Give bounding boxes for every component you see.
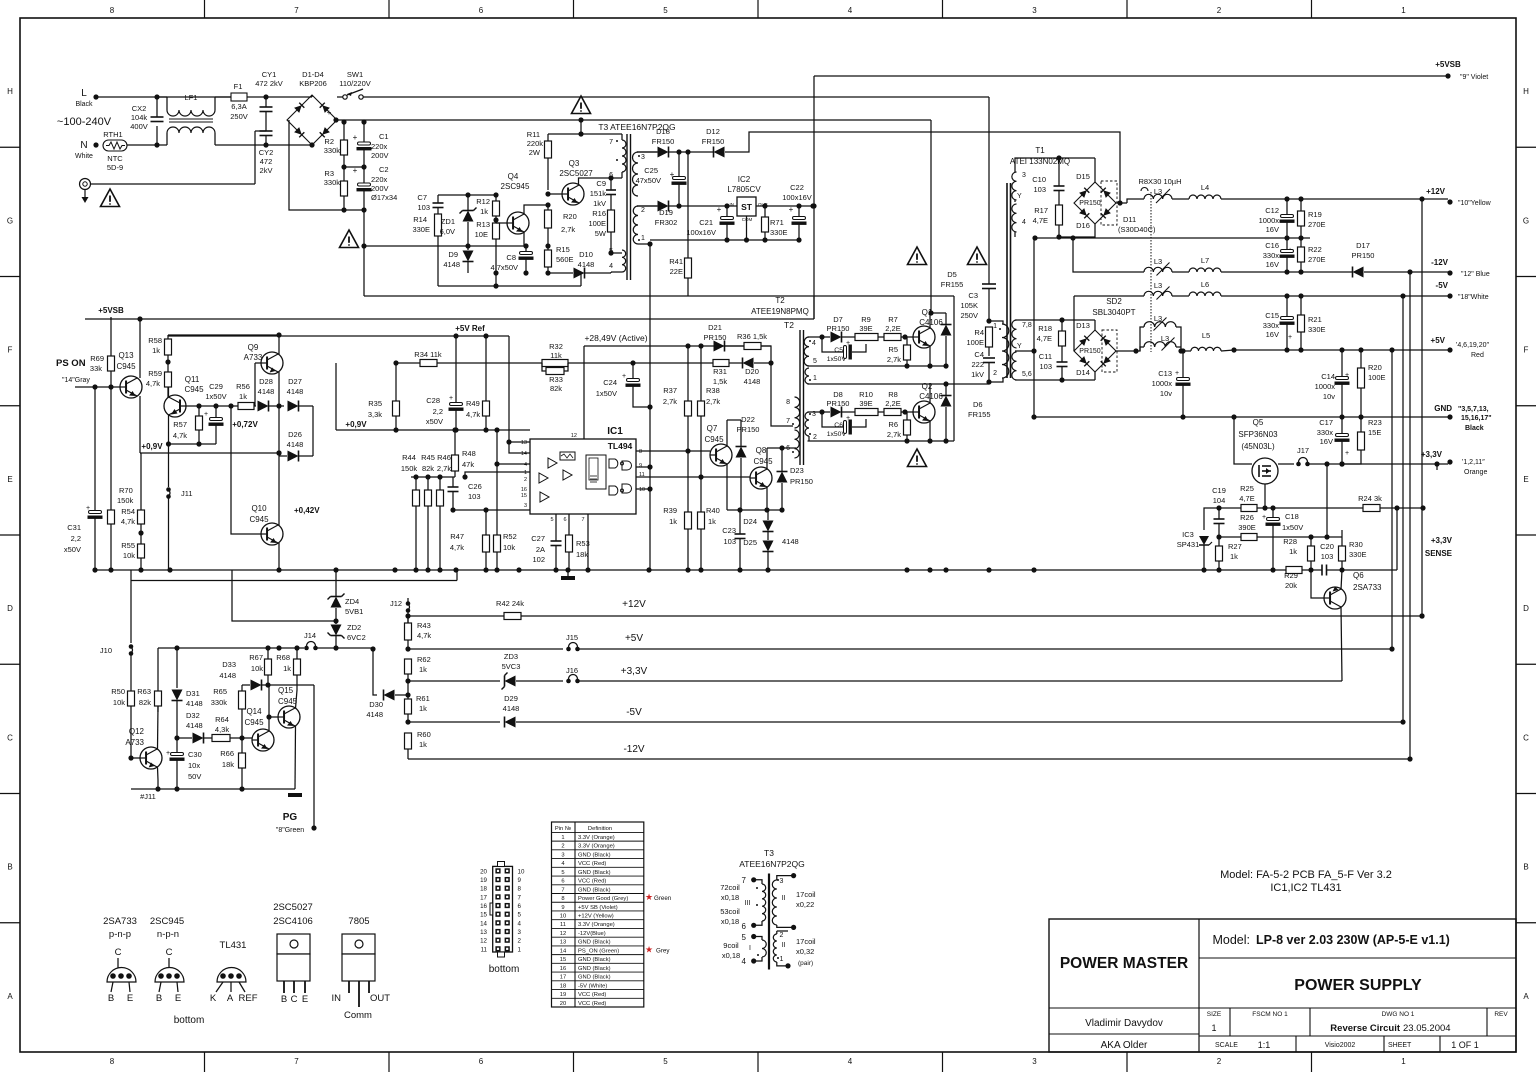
svg-text:+3,3V: +3,3V — [621, 666, 648, 677]
wire D27 to D26 — [312, 406, 314, 456]
svg-text:GND (Black): GND (Black) — [578, 887, 611, 893]
wire 3.3V fb rail — [1135, 569, 1286, 571]
wire +3.3V sense loop — [1436, 464, 1438, 470]
svg-text:8: 8 — [110, 6, 115, 15]
svg-text:Red: Red — [1471, 352, 1484, 359]
svg-text:6,0V: 6,0V — [440, 227, 455, 236]
svg-text:Black: Black — [1465, 425, 1484, 432]
svg-text:9: 9 — [561, 905, 564, 911]
svg-text:100x16V: 100x16V — [686, 228, 716, 237]
wire mains bus y97 — [420, 96, 989, 98]
svg-text:FSCM NO 1: FSCM NO 1 — [1252, 1011, 1288, 1018]
svg-text:H: H — [1523, 87, 1529, 96]
svg-text:C4106: C4106 — [919, 392, 943, 401]
svg-text:SBL3040PT: SBL3040PT — [1092, 308, 1135, 317]
svg-text:4148: 4148 — [186, 699, 203, 708]
svg-text:+5V: +5V — [1431, 336, 1446, 345]
svg-text:4: 4 — [812, 340, 816, 347]
svg-text:POWER MASTER: POWER MASTER — [1060, 955, 1188, 972]
svg-text:10E: 10E — [475, 230, 488, 239]
svg-text:R15: R15 — [556, 245, 570, 254]
svg-text:C27: C27 — [531, 534, 545, 543]
svg-text:4,7E: 4,7E — [1037, 334, 1052, 343]
svg-text:4,7E: 4,7E — [1033, 216, 1048, 225]
wire Q6 base — [1311, 570, 1324, 598]
svg-text:E: E — [302, 994, 308, 1005]
svg-text:12: 12 — [560, 931, 566, 937]
svg-text:16: 16 — [480, 903, 487, 910]
svg-text:Black: Black — [75, 101, 93, 108]
wire T2 center row — [808, 383, 990, 385]
svg-text:+: + — [353, 166, 358, 175]
svg-text:17: 17 — [480, 894, 487, 901]
wire hk bottom rail — [131, 788, 295, 790]
svg-text:SD2: SD2 — [1106, 297, 1122, 306]
svg-text:REV: REV — [1494, 1011, 1508, 1018]
wire 12V gnd row — [1035, 237, 1310, 239]
svg-text:47k: 47k — [462, 460, 474, 469]
svg-text:1000x: 1000x — [1152, 379, 1173, 388]
svg-text:IC2: IC2 — [738, 175, 751, 184]
svg-text:C23: C23 — [722, 526, 736, 535]
svg-text:15E: 15E — [1368, 428, 1381, 437]
wire Q4 emitter — [523, 232, 525, 246]
svg-text:R10: R10 — [859, 390, 873, 399]
svg-text:222: 222 — [971, 360, 984, 369]
svg-text:11: 11 — [481, 946, 488, 953]
wire J12 top — [407, 598, 409, 604]
svg-text:G: G — [7, 216, 13, 225]
svg-text:14: 14 — [521, 451, 527, 457]
svg-text:2,7k: 2,7k — [561, 225, 575, 234]
svg-text:1: 1 — [780, 956, 784, 963]
svg-text:R71: R71 — [770, 218, 784, 227]
svg-text:C8: C8 — [506, 253, 516, 262]
svg-text:C12: C12 — [1265, 206, 1279, 215]
svg-text:R20: R20 — [1368, 363, 1382, 372]
svg-text:2,7k: 2,7k — [706, 397, 720, 406]
svg-text:D18: D18 — [656, 127, 670, 136]
svg-text:23.05.2004: 23.05.2004 — [1403, 1023, 1451, 1034]
svg-text:C14: C14 — [1321, 372, 1335, 381]
svg-text:R59: R59 — [148, 369, 162, 378]
svg-text:R66: R66 — [220, 749, 234, 758]
svg-text:R30: R30 — [1349, 540, 1363, 549]
svg-text:1x50V: 1x50V — [596, 389, 617, 398]
svg-text:D8: D8 — [833, 390, 843, 399]
svg-text:II: II — [782, 942, 786, 949]
svg-text:5: 5 — [742, 933, 747, 942]
svg-text:4148: 4148 — [744, 377, 761, 386]
wire y648 to D30 — [316, 647, 373, 649]
svg-text:GND (Black): GND (Black) — [578, 940, 611, 946]
svg-text:10k: 10k — [251, 664, 263, 673]
svg-text:C4: C4 — [974, 350, 984, 359]
svg-text:Q10: Q10 — [251, 504, 267, 513]
svg-text:4148: 4148 — [258, 387, 275, 396]
svg-text:5VC3: 5VC3 — [502, 662, 521, 671]
svg-text:C17: C17 — [1319, 418, 1333, 427]
svg-text:White: White — [75, 153, 93, 160]
svg-text:C15: C15 — [1265, 311, 1279, 320]
wire standby top node — [438, 194, 496, 196]
svg-text:+5V: +5V — [625, 633, 643, 644]
svg-text:4,7x50V: 4,7x50V — [490, 263, 518, 272]
svg-text:R11: R11 — [527, 130, 540, 139]
wire GND to Q5 loop — [1234, 417, 1252, 464]
svg-text:105K: 105K — [960, 301, 978, 310]
svg-text:2SC4106: 2SC4106 — [273, 916, 313, 927]
svg-text:R56: R56 — [236, 382, 250, 391]
svg-text:"12" Blue: "12" Blue — [1461, 271, 1490, 278]
svg-text:D27: D27 — [288, 377, 302, 386]
svg-text:R14: R14 — [413, 215, 427, 224]
svg-text:K: K — [210, 993, 217, 1004]
svg-text:PR150: PR150 — [704, 333, 727, 342]
svg-text:-12V(Blue): -12V(Blue) — [578, 931, 606, 937]
svg-text:C30: C30 — [188, 750, 202, 759]
svg-text:Q14: Q14 — [246, 707, 262, 716]
svg-text:3: 3 — [561, 852, 564, 858]
svg-text:104k: 104k — [131, 113, 148, 122]
svg-text:FR155: FR155 — [968, 410, 991, 419]
svg-text:103: 103 — [1039, 362, 1052, 371]
pin definition table — [552, 822, 644, 1007]
svg-text:400V: 400V — [130, 122, 148, 131]
svg-text:+12V (Yellow): +12V (Yellow) — [578, 914, 614, 920]
svg-text:(S30D40C): (S30D40C) — [1118, 225, 1156, 234]
svg-text:R27: R27 — [1228, 542, 1242, 551]
ground Q15 — [288, 793, 302, 797]
svg-text:~100-240V: ~100-240V — [57, 116, 112, 128]
wire pin12 riser — [583, 346, 585, 439]
svg-text:4,7E: 4,7E — [1239, 494, 1254, 503]
svg-text:6: 6 — [518, 903, 522, 910]
wire pin1 line — [465, 472, 530, 477]
svg-text:1: 1 — [1211, 1023, 1216, 1033]
svg-text:150k: 150k — [117, 496, 134, 505]
svg-text:B: B — [281, 994, 287, 1005]
svg-text:D22: D22 — [741, 415, 755, 424]
svg-text:'1,2,11″: '1,2,11″ — [1462, 459, 1485, 466]
svg-text:B: B — [1523, 863, 1528, 872]
svg-text:L7805CV: L7805CV — [727, 185, 761, 194]
wire B- to standby — [364, 245, 438, 247]
svg-text:R48: R48 — [462, 449, 476, 458]
svg-text:3: 3 — [1032, 6, 1037, 15]
svg-text:T3: T3 — [764, 848, 774, 858]
svg-text:R5: R5 — [888, 345, 898, 354]
svg-text:2,2: 2,2 — [433, 407, 443, 416]
svg-text:7: 7 — [294, 1057, 299, 1066]
svg-text:R44: R44 — [402, 453, 416, 462]
wire secondary gnd rail y570 — [95, 569, 1135, 571]
svg-text:Green: Green — [654, 895, 672, 902]
wire +5VSB vertical — [813, 76, 815, 319]
svg-text:R43: R43 — [417, 621, 431, 630]
svg-text:D7: D7 — [833, 315, 843, 324]
svg-text:2,7k: 2,7k — [663, 397, 677, 406]
svg-text:R2: R2 — [324, 137, 334, 146]
svg-text:C11: C11 — [1039, 352, 1052, 361]
svg-text:C945: C945 — [116, 362, 136, 371]
svg-text:R7: R7 — [888, 315, 898, 324]
wire Q13 emitter — [139, 396, 141, 453]
wire T1 lower sec wires — [1015, 319, 1095, 321]
svg-text:E: E — [1523, 475, 1528, 484]
svg-text:"14"Gray: "14"Gray — [62, 377, 90, 384]
svg-text:R42 24k: R42 24k — [496, 599, 524, 608]
svg-text:330E: 330E — [1308, 325, 1326, 334]
warning triangle B- — [340, 230, 359, 248]
svg-text:1: 1 — [641, 235, 645, 242]
svg-text:270E: 270E — [1308, 220, 1326, 229]
svg-text:330k: 330k — [324, 178, 341, 187]
svg-text:13: 13 — [521, 440, 527, 446]
wire B- from bridge — [289, 120, 364, 210]
svg-text:+5V SB (Violet): +5V SB (Violet) — [578, 905, 618, 911]
svg-text:x0,18: x0,18 — [721, 917, 739, 926]
wire +3.3V down to R26 node — [1326, 464, 1328, 537]
wire bridge out +12V — [1116, 202, 1127, 204]
svg-text:7: 7 — [294, 6, 299, 15]
svg-text:x0,22: x0,22 — [796, 900, 814, 909]
svg-text:1k: 1k — [1289, 547, 1297, 556]
svg-text:Orange: Orange — [1464, 469, 1487, 476]
wire primary return y296 — [364, 295, 954, 297]
svg-text:L5: L5 — [1202, 331, 1210, 340]
svg-text:Power Good (Grey): Power Good (Grey) — [578, 896, 628, 902]
svg-text:6VC2: 6VC2 — [347, 633, 366, 642]
svg-text:L3: L3 — [1154, 281, 1162, 290]
svg-text:4,7k: 4,7k — [417, 631, 431, 640]
svg-text:5: 5 — [663, 1057, 668, 1066]
svg-text:D28: D28 — [259, 377, 273, 386]
svg-text:F: F — [1524, 346, 1529, 355]
svg-text:R39: R39 — [663, 506, 677, 515]
warning triangle near earth — [101, 189, 120, 207]
svg-text:4,7k: 4,7k — [146, 379, 160, 388]
svg-text:PR150: PR150 — [1352, 251, 1375, 260]
wire -12V rail — [1221, 271, 1352, 273]
svg-text:10: 10 — [560, 914, 566, 920]
diode D22 body — [736, 447, 747, 458]
svg-text:L4: L4 — [1201, 183, 1209, 192]
svg-text:'4,6,19,20″: '4,6,19,20″ — [1456, 342, 1490, 349]
svg-text:x50V: x50V — [426, 417, 443, 426]
wire Q11 node row — [186, 405, 246, 407]
wire Q5 source right — [1278, 463, 1294, 465]
svg-text:J14: J14 — [304, 631, 316, 640]
svg-text:R46: R46 — [437, 453, 451, 462]
svg-text:D: D — [1523, 604, 1529, 613]
svg-text:CY1: CY1 — [262, 70, 277, 79]
svg-text:+0,9V: +0,9V — [141, 442, 163, 451]
svg-text:1: 1 — [993, 323, 997, 330]
wire pin9-10 vertical — [636, 466, 650, 468]
svg-text:3: 3 — [518, 929, 522, 936]
svg-text:"18"White: "18"White — [1458, 294, 1489, 301]
svg-text:D29: D29 — [504, 694, 518, 703]
svg-text:B: B — [108, 993, 114, 1004]
wire R30 top — [1341, 530, 1343, 537]
wire -5V rail — [1221, 295, 1448, 297]
svg-text:FR302: FR302 — [655, 218, 678, 227]
wire D32 row — [193, 733, 204, 744]
svg-text:17coil: 17coil — [796, 937, 816, 946]
wire Q1 collector — [930, 313, 946, 328]
svg-text:Q7: Q7 — [707, 424, 718, 433]
wire D12 up — [725, 132, 1120, 203]
core dashed line — [1150, 192, 1152, 352]
svg-text:C28: C28 — [426, 396, 440, 405]
svg-text:Q9: Q9 — [248, 343, 259, 352]
svg-text:3: 3 — [524, 503, 527, 509]
svg-text:REF: REF — [239, 993, 258, 1004]
svg-text:39E: 39E — [859, 324, 872, 333]
wire Q13 collector — [139, 319, 141, 378]
svg-text:II: II — [782, 895, 786, 902]
svg-text:G: G — [1523, 216, 1529, 225]
svg-text:"10"Yellow: "10"Yellow — [1458, 200, 1492, 207]
svg-text:16V: 16V — [1266, 225, 1279, 234]
svg-text:C: C — [166, 947, 173, 958]
warning triangle above T3 — [572, 96, 591, 114]
svg-text:Vladimir Davydov: Vladimir Davydov — [1085, 1018, 1163, 1029]
svg-text:6: 6 — [742, 922, 747, 931]
svg-text:Reverse Circuit: Reverse Circuit — [1330, 1023, 1401, 1034]
svg-text:PS ON: PS ON — [56, 358, 86, 369]
svg-text:2: 2 — [780, 932, 784, 939]
svg-text:4148: 4148 — [186, 721, 203, 730]
svg-text:2,7k: 2,7k — [887, 430, 901, 439]
svg-text:PG: PG — [283, 812, 298, 823]
svg-text:2SC945: 2SC945 — [150, 916, 184, 927]
svg-text:+5VSB: +5VSB — [98, 306, 124, 315]
wire +5VSB rail y319 — [85, 318, 814, 320]
wire J17 to +3.3V — [1308, 463, 1448, 465]
svg-text:SCALE: SCALE — [1215, 1042, 1238, 1049]
wire N — [127, 144, 157, 146]
svg-text:C31: C31 — [67, 523, 81, 532]
svg-text:R25: R25 — [1240, 484, 1254, 493]
svg-text:7805: 7805 — [348, 916, 369, 927]
svg-text:R8X30 10µH: R8X30 10µH — [1138, 177, 1181, 186]
svg-text:7: 7 — [518, 894, 522, 901]
svg-text:20: 20 — [480, 868, 487, 875]
svg-text:R35: R35 — [368, 399, 382, 408]
svg-text:D20: D20 — [745, 367, 759, 376]
svg-text:NTC: NTC — [107, 154, 123, 163]
svg-text:3.3V (Orange): 3.3V (Orange) — [578, 922, 615, 928]
svg-text:+0,9V: +0,9V — [345, 420, 367, 429]
svg-text:8: 8 — [639, 449, 642, 455]
svg-text:2: 2 — [641, 207, 645, 214]
wire R57 C29 bottom row — [169, 443, 217, 445]
svg-text:1k: 1k — [669, 517, 677, 526]
svg-text:-12V: -12V — [623, 744, 644, 755]
svg-text:D9: D9 — [448, 250, 458, 259]
svg-text:4,7k: 4,7k — [121, 517, 135, 526]
wire T1 center tap gnd — [1033, 238, 1035, 417]
svg-text:+3,3V: +3,3V — [1431, 536, 1453, 545]
svg-text:220x: 220x — [371, 175, 388, 184]
svg-text:R58: R58 — [148, 336, 162, 345]
svg-text:100x16V: 100x16V — [782, 193, 812, 202]
wire Q15 base — [269, 716, 278, 718]
wire pin13 stub — [509, 441, 530, 443]
svg-text:16: 16 — [560, 966, 566, 972]
svg-text:330x: 330x — [1263, 251, 1280, 260]
wire Q11 base right — [180, 405, 186, 407]
svg-text:D16: D16 — [1076, 221, 1090, 230]
terminal PS_ON — [92, 384, 97, 389]
svg-text:4: 4 — [848, 6, 853, 15]
wire Q3 collector — [579, 178, 612, 186]
svg-text:RTH1: RTH1 — [103, 130, 122, 139]
svg-text:+: + — [1262, 514, 1266, 521]
svg-text:SP431: SP431 — [1177, 540, 1200, 549]
svg-text:VCC (Red): VCC (Red) — [578, 992, 606, 998]
svg-text:1k: 1k — [152, 346, 160, 355]
svg-text:C945: C945 — [184, 385, 204, 394]
svg-text:D13: D13 — [1076, 321, 1090, 330]
wire D20 down to T2 pin7 — [771, 363, 793, 426]
svg-text:R19: R19 — [1308, 210, 1322, 219]
svg-text:D5: D5 — [947, 270, 957, 279]
svg-text:DWG NO 1: DWG NO 1 — [1382, 1011, 1415, 1018]
svg-text:4148: 4148 — [366, 710, 383, 719]
svg-text:D17: D17 — [1356, 241, 1370, 250]
wire R24 row — [1265, 507, 1423, 509]
svg-text:R67: R67 — [249, 653, 263, 662]
svg-text:L7: L7 — [1201, 256, 1209, 265]
svg-text:1k: 1k — [239, 392, 247, 401]
wire F1 to bridge — [247, 96, 312, 98]
svg-text:4148: 4148 — [503, 704, 520, 713]
svg-text:2SC5027: 2SC5027 — [559, 169, 593, 178]
wire +5V sense loop — [1391, 350, 1393, 649]
svg-text:330k: 330k — [211, 698, 228, 707]
svg-text:1x50V: 1x50V — [1282, 523, 1303, 532]
svg-text:C1: C1 — [379, 132, 389, 141]
svg-text:R55: R55 — [121, 541, 135, 550]
svg-text:9: 9 — [518, 877, 522, 884]
svg-text:LF1: LF1 — [185, 93, 198, 102]
svg-text:C2: C2 — [379, 165, 389, 174]
wire rail570 drop x232 — [232, 570, 336, 621]
svg-text:R40: R40 — [706, 506, 720, 515]
svg-text:8: 8 — [561, 896, 564, 902]
wire Q10 base — [231, 406, 261, 534]
svg-text:20: 20 — [560, 1001, 566, 1007]
wire L — [96, 96, 231, 98]
svg-text:1: 1 — [561, 835, 564, 841]
svg-text:2,7k: 2,7k — [437, 464, 451, 473]
svg-text:18: 18 — [560, 983, 566, 989]
svg-text:L: L — [81, 88, 87, 99]
svg-text:Model: FA-5-2 PCB FA_5-F Ver 3: Model: FA-5-2 PCB FA_5-F Ver 3.2 — [1220, 869, 1392, 881]
wire Q12 emitter — [157, 768, 160, 790]
svg-text:A733: A733 — [125, 738, 144, 747]
svg-text:(pair): (pair) — [798, 960, 813, 967]
wire IC2 out — [756, 205, 813, 207]
svg-text:F: F — [8, 346, 13, 355]
svg-text:GND (Black): GND (Black) — [578, 852, 611, 858]
svg-text:D32: D32 — [186, 711, 200, 720]
svg-text:472: 472 — [260, 157, 273, 166]
svg-text:4: 4 — [742, 957, 747, 966]
